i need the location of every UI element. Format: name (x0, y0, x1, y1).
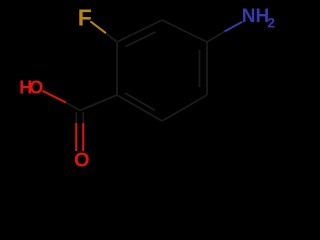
svg-text:O: O (29, 77, 43, 97)
svg-text:2: 2 (267, 15, 275, 31)
svg-text:O: O (74, 150, 90, 172)
svg-text:NH: NH (242, 6, 269, 27)
svg-text:F: F (78, 4, 92, 30)
